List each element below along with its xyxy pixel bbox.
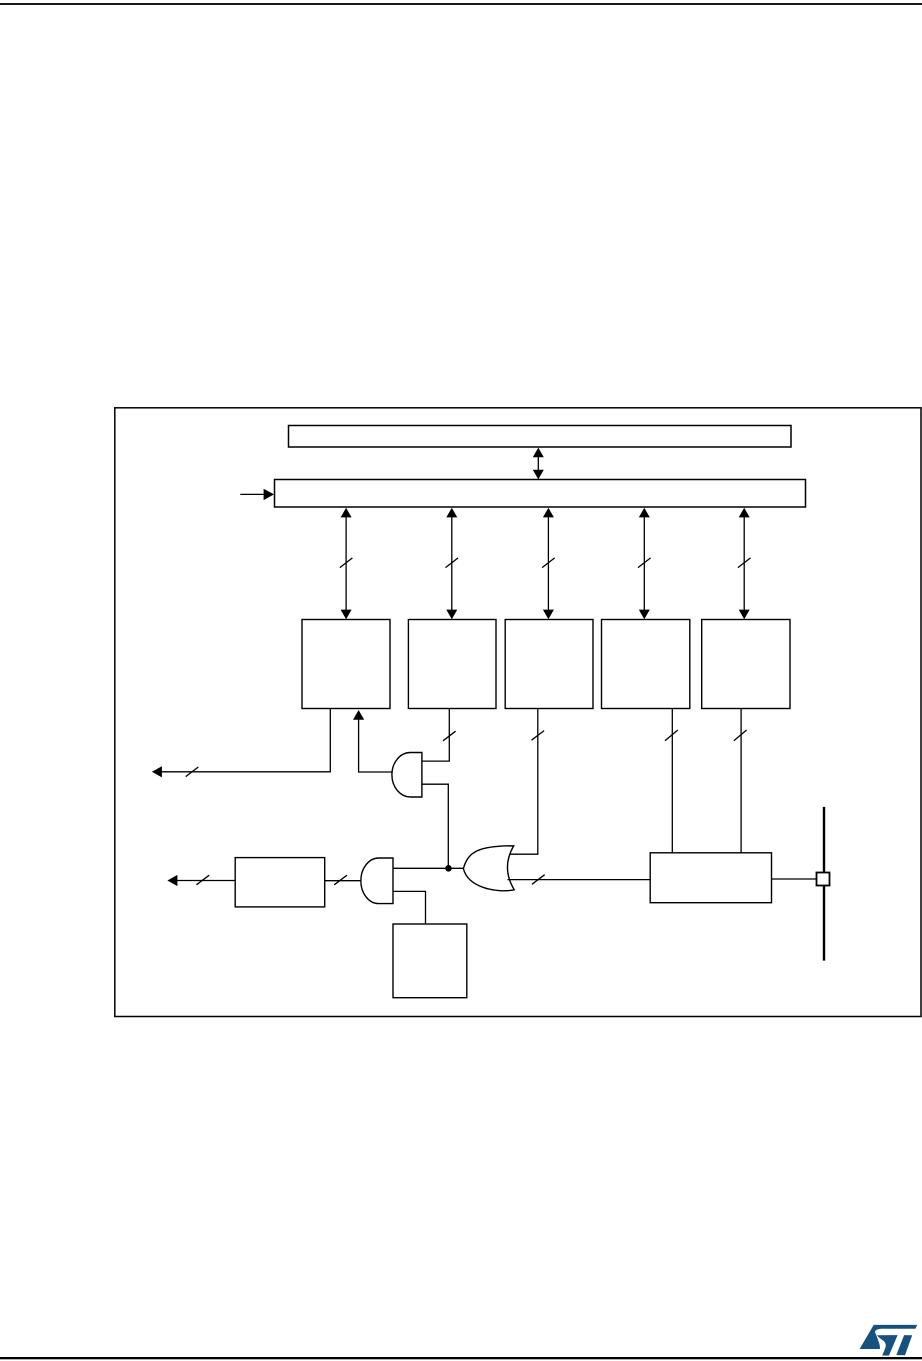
OR gate U3 (points left) [463,846,514,891]
AND gate U1 (points left) [392,753,422,798]
input arrow into bar2 left side [240,489,274,500]
bus bar 2 (second rectangle) [275,480,806,508]
top header rule [0,3,922,5]
box B5 [702,620,790,709]
wire junction horizontal (AND U2 upper input - node - OR U3 output) [393,867,463,869]
box B2 [408,620,496,709]
bus arrow 1 (bar2 to box B1) [340,508,353,619]
box B1 [302,620,390,709]
mask box (bottom) [393,924,467,998]
figure frame [115,408,921,1017]
small rectangle (left) [235,858,325,907]
box B4 [602,620,690,709]
bus arrow 5 (bar2 to box B5) [738,508,751,619]
ST logo [860,1325,918,1356]
output arrow from small rectangle to left [167,875,235,886]
bus arrow 4 (bar2 to box B4) [638,508,651,619]
pad square on interrupt line [817,873,830,886]
wire from AND gate U1 output up into box B1 [353,710,393,772]
bottom footer rule [0,1357,922,1359]
wire from AND gate U1 lower input down to junction node [422,784,448,866]
junction node dot [445,865,452,872]
bidirectional arrow between bar1 and bar2 [533,448,544,480]
wire from box B1 down-left to output arrow [152,709,330,778]
wire from small rectangle to AND gate U2 output [325,875,363,885]
status rectangle (right) [650,853,771,903]
wire from box B4 down to status rectangle [665,709,678,853]
bus arrow 2 (bar2 to box B2) [446,508,459,619]
interrupt vertical line (thick) [823,807,825,961]
wire from status rectangle to pad square [772,878,817,880]
box B3 [505,620,593,709]
wire from box B2 down to AND gate U1 upper input [422,709,455,762]
bus arrow 3 (bar2 to box B3) [542,508,555,619]
wire from OR gate U3 lower input to status rectangle [508,875,651,885]
wire from box B5 down to status rectangle [734,709,747,853]
wire from box B3 down to OR gate U3 upper input [509,709,545,855]
wire from AND gate U2 lower input down to mask box [393,891,425,924]
AND gate U2 (points left) [361,858,393,904]
bus bar 1 (top rectangle) [289,426,792,448]
